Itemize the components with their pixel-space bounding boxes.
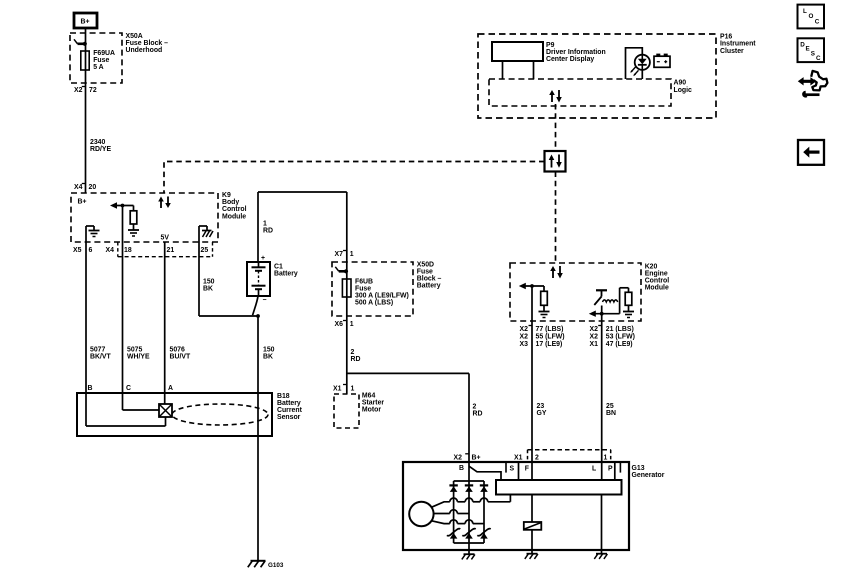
- ground at K9 pin X5/6: [86, 226, 100, 242]
- svg-text:Center Display: Center Display: [546, 56, 594, 63]
- wire label 2340 RD/YE: [90, 139, 111, 153]
- icon diagnostic jump with wrench: [798, 71, 828, 98]
- body control module K9 dashed box: [71, 192, 247, 242]
- svg-text:C: C: [126, 385, 131, 392]
- serial data arrows inside A90: [549, 90, 562, 103]
- svg-text:X2: X2: [74, 87, 83, 94]
- wire B terminal through rectifier to ground: [468, 462, 470, 550]
- svg-text:A90: A90: [674, 80, 687, 87]
- wire 150 BK battery negative through B18 to G103: [253, 296, 275, 561]
- generator terminal letters B S F L P: [459, 462, 620, 473]
- svg-text:25: 25: [606, 403, 614, 410]
- logic module A90 dashed box: [489, 79, 692, 106]
- svg-text:Battery: Battery: [274, 270, 298, 277]
- wire 5075 WH/YE from K9 pin 18 to B18 pin C: [123, 206, 150, 394]
- svg-text:500 A (LBS): 500 A (LBS): [355, 300, 393, 307]
- B18 pin letters B C A: [88, 385, 174, 392]
- F terminal wire inside generator: [531, 462, 533, 480]
- icon back arrow button: [798, 140, 824, 165]
- svg-text:X50A: X50A: [126, 33, 143, 40]
- serial data dashed line cluster to splice box: [555, 104, 557, 151]
- svg-text:6: 6: [89, 247, 93, 254]
- svg-text:Fuse Block –: Fuse Block –: [126, 40, 169, 47]
- ground under field winding: [525, 554, 538, 559]
- wire 5077 BK/VT from K9 pin 6 to B18 pin B: [86, 242, 111, 393]
- svg-text:1: 1: [351, 386, 355, 393]
- svg-text:X2: X2: [520, 334, 529, 341]
- svg-text:M64: M64: [362, 393, 376, 400]
- wire 5076 BU/VT from K9 pin 21 to B18 pin A: [165, 242, 191, 393]
- rectifier bottom avalanche diodes: [447, 529, 491, 539]
- fuse block X50A dashed box: [70, 33, 168, 83]
- svg-text:300 A (LE9/LFW): 300 A (LE9/LFW): [355, 293, 409, 300]
- svg-text:E: E: [806, 46, 810, 53]
- svg-text:WH/YE: WH/YE: [127, 354, 150, 361]
- svg-text:X7: X7: [335, 251, 344, 258]
- K9 bottom pin labels X5 6 X4 18 21 25: [73, 247, 208, 254]
- svg-text:Underhood: Underhood: [126, 47, 163, 54]
- battery C1: [247, 255, 298, 304]
- svg-text:K20: K20: [645, 263, 658, 270]
- P terminal stub: [614, 462, 616, 480]
- regulator ground wire: [601, 495, 603, 554]
- svg-text:C: C: [816, 55, 821, 62]
- svg-text:X4: X4: [106, 247, 115, 254]
- svg-text:Control: Control: [645, 278, 670, 285]
- svg-text:21: 21: [167, 247, 175, 254]
- pin label X7 1: [335, 251, 354, 259]
- B18 current loop dashed ellipse: [172, 404, 268, 425]
- svg-text:+: +: [261, 255, 265, 262]
- svg-text:X6: X6: [335, 321, 344, 328]
- node B+ label inside K9: [78, 199, 87, 206]
- svg-text:Current: Current: [277, 407, 303, 414]
- svg-text:B+: B+: [472, 455, 481, 462]
- svg-text:B: B: [459, 465, 464, 472]
- svg-text:77 (LBS): 77 (LBS): [536, 326, 564, 333]
- ground under B diode bridge: [462, 550, 475, 559]
- stator phase 1 to regulator: [432, 495, 511, 508]
- svg-text:−: −: [263, 297, 267, 304]
- pin label X2 72: [74, 87, 97, 95]
- rectifier top diodes: [449, 485, 488, 492]
- stator winding circle: [409, 502, 433, 526]
- svg-text:X2: X2: [590, 326, 599, 333]
- svg-text:BU/VT: BU/VT: [170, 354, 191, 361]
- serial data arrows inside K9: [158, 197, 171, 209]
- node B+ battery positive voltage box: [74, 13, 97, 28]
- icon DESC button: [798, 38, 825, 62]
- svg-text:X3: X3: [520, 341, 529, 348]
- svg-text:L: L: [592, 466, 596, 473]
- svg-text:25: 25: [201, 247, 209, 254]
- svg-text:S: S: [510, 466, 515, 473]
- svg-text:F: F: [525, 466, 529, 473]
- svg-text:GY: GY: [537, 410, 547, 417]
- wire 1 RD from battery positive to fuse block X50D: [258, 192, 347, 394]
- svg-text:Fuse: Fuse: [417, 269, 433, 276]
- charge indicator lamp: [626, 48, 650, 79]
- ground at K9 pin 25: [199, 226, 213, 242]
- svg-text:1: 1: [604, 454, 608, 461]
- svg-text:A: A: [168, 385, 173, 392]
- svg-text:BK: BK: [263, 354, 273, 361]
- svg-text:72: 72: [89, 87, 97, 94]
- svg-text:RD: RD: [263, 228, 273, 235]
- svg-text:P: P: [608, 466, 613, 473]
- svg-text:5 A: 5 A: [93, 64, 103, 71]
- terminal symbol inside X50D: [335, 267, 348, 274]
- rectifier bridge top bus: [454, 481, 484, 543]
- svg-text:S: S: [811, 50, 815, 57]
- svg-text:X1: X1: [514, 454, 523, 461]
- svg-text:C: C: [815, 18, 820, 25]
- svg-text:X1: X1: [590, 341, 599, 348]
- serial data arrows inside K20: [550, 266, 563, 279]
- svg-text:2: 2: [535, 454, 539, 461]
- svg-text:18: 18: [124, 247, 132, 254]
- svg-text:Module: Module: [222, 213, 246, 220]
- fuse F6UB: [342, 279, 408, 307]
- serial data dashed line to K9: [164, 162, 545, 194]
- svg-text:1: 1: [263, 221, 267, 228]
- svg-text:Fuse: Fuse: [93, 57, 109, 64]
- svg-text:BN: BN: [606, 410, 616, 417]
- battery current sensor B18 box: [77, 393, 303, 436]
- svg-text:Starter: Starter: [362, 400, 385, 407]
- svg-text:O: O: [809, 13, 814, 20]
- B18 internal wiring and hall element: [86, 393, 172, 426]
- B to regulator connection: [469, 466, 501, 480]
- svg-text:BK/VT: BK/VT: [90, 354, 111, 361]
- voltage regulator: [496, 480, 622, 495]
- ground under regulator: [594, 554, 607, 559]
- stator phase 3: [432, 520, 484, 524]
- pull-up resistor with left arrow inside K9: [110, 202, 139, 236]
- svg-text:Control: Control: [222, 206, 247, 213]
- svg-text:RD: RD: [473, 411, 483, 418]
- K20 pin labels left: [520, 326, 565, 348]
- engine control module K20 dashed box: [510, 263, 669, 321]
- svg-text:X2: X2: [590, 334, 599, 341]
- svg-text:21 (LBS): 21 (LBS): [606, 326, 634, 333]
- svg-text:Battery: Battery: [277, 400, 301, 407]
- svg-text:Instrument: Instrument: [720, 41, 756, 48]
- svg-text:P16: P16: [720, 34, 732, 41]
- field winding wire and symbol: [524, 495, 542, 554]
- fuse block X50D dashed box: [332, 262, 441, 316]
- ground G103: [248, 561, 284, 569]
- svg-text:Cluster: Cluster: [720, 48, 744, 55]
- svg-text:Fuse: Fuse: [355, 286, 371, 293]
- svg-text:F6UB: F6UB: [355, 279, 373, 286]
- svg-text:X1: X1: [333, 386, 342, 393]
- svg-text:Motor: Motor: [362, 407, 381, 414]
- svg-text:C1: C1: [274, 263, 283, 270]
- svg-text:53 (LFW): 53 (LFW): [606, 334, 635, 341]
- K20 left driver: arrow resistor and ground: [519, 283, 550, 318]
- svg-text:G13: G13: [632, 465, 645, 472]
- svg-text:17 (LE9): 17 (LE9): [536, 341, 563, 348]
- node 5V label: [161, 235, 170, 242]
- svg-text:G103: G103: [268, 562, 284, 569]
- svg-text:5V: 5V: [161, 235, 170, 242]
- wire 150 BK from K9 pin 25 to battery negative: [199, 242, 258, 316]
- svg-text:Block –: Block –: [417, 276, 442, 283]
- svg-text:X2: X2: [520, 326, 529, 333]
- S terminal stub: [518, 462, 520, 480]
- wire 2 RD from fuse to starter and generator: [347, 349, 483, 462]
- svg-text:47 (LE9): 47 (LE9): [606, 341, 633, 348]
- svg-text:Logic: Logic: [674, 87, 693, 94]
- svg-text:RD/YE: RD/YE: [90, 146, 111, 153]
- wire from B+ to fuse block and down to BCM pin X4/20: [85, 28, 87, 193]
- stator phase 2: [434, 510, 469, 514]
- generator G13 box: [403, 462, 665, 550]
- svg-text:Sensor: Sensor: [277, 414, 301, 421]
- K20 pin labels right: [590, 326, 635, 348]
- svg-text:X4: X4: [74, 184, 83, 191]
- K20 right driver: switch coil resistor arrow: [589, 288, 634, 318]
- svg-text:X2: X2: [454, 455, 463, 462]
- svg-text:20: 20: [89, 184, 97, 191]
- wire 23 GY from K20 to generator F: [532, 286, 547, 462]
- svg-text:X5: X5: [73, 247, 82, 254]
- svg-text:23: 23: [537, 403, 545, 410]
- svg-text:BK: BK: [203, 285, 213, 292]
- svg-text:Body: Body: [222, 199, 239, 206]
- battery icon in cluster: [654, 54, 670, 68]
- svg-text:1: 1: [350, 321, 354, 328]
- svg-text:Generator: Generator: [632, 472, 665, 479]
- pin label X4 20: [74, 184, 96, 192]
- fuse F69UA 5A: [81, 50, 115, 71]
- pin label X6 1: [335, 321, 354, 329]
- connector X1 dashed marks and labels 2 and 1: [514, 450, 611, 462]
- instrument cluster P16 dashed box: [478, 34, 756, 118]
- svg-text:Battery: Battery: [417, 283, 441, 290]
- wire 25 BN from K20 to generator L: [602, 306, 616, 463]
- svg-text:L: L: [803, 8, 807, 15]
- svg-text:1: 1: [350, 251, 354, 258]
- terminal symbol inside X50A: [74, 39, 87, 46]
- icon LOC button: [798, 5, 825, 29]
- L terminal wire inside generator: [601, 462, 603, 480]
- pin label X2 B+ at generator: [454, 454, 481, 462]
- svg-text:B: B: [88, 385, 93, 392]
- svg-text:B18: B18: [277, 393, 290, 400]
- serial data link box: [545, 151, 566, 172]
- svg-text:B+: B+: [81, 19, 90, 26]
- svg-text:F69UA: F69UA: [93, 50, 115, 57]
- svg-text:Module: Module: [645, 285, 669, 292]
- svg-text:2340: 2340: [90, 139, 105, 146]
- serial data dashed line to K20: [555, 172, 557, 264]
- pin label X1 1 starter: [333, 385, 355, 393]
- svg-text:K9: K9: [222, 192, 231, 199]
- driver information center display P9: [492, 42, 606, 79]
- svg-text:2: 2: [351, 349, 355, 356]
- starter motor M64 dashed box: [334, 393, 384, 429]
- svg-text:RD: RD: [351, 356, 361, 363]
- svg-text:Engine: Engine: [645, 270, 668, 277]
- svg-text:X50D: X50D: [417, 262, 434, 269]
- connector X4 dashed outline below K9: [118, 242, 213, 257]
- svg-text:B+: B+: [78, 199, 87, 206]
- svg-text:55 (LFW): 55 (LFW): [536, 334, 565, 341]
